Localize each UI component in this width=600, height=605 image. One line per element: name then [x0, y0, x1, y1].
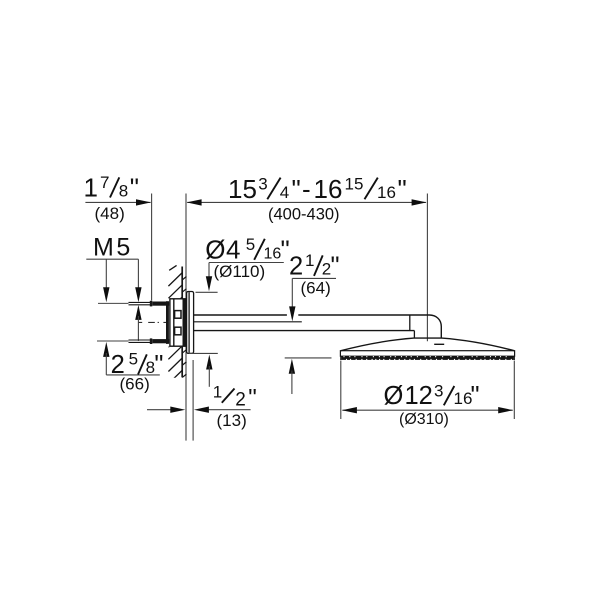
svg-text:8: 8	[119, 182, 128, 201]
svg-text:(48): (48)	[95, 204, 125, 223]
svg-text:(Ø110): (Ø110)	[214, 262, 266, 281]
svg-text:": "	[130, 173, 139, 203]
dimension flange diameter 4 5/16 inch (110)	[189, 235, 290, 387]
svg-text:Ø: Ø	[205, 235, 225, 265]
svg-text:M5: M5	[93, 234, 133, 262]
svg-text:16: 16	[264, 246, 282, 263]
svg-text:5: 5	[246, 235, 255, 254]
extension line union rear edge	[151, 194, 153, 301]
svg-text:12: 12	[405, 382, 433, 410]
svg-text:5: 5	[129, 350, 138, 369]
svg-text:3: 3	[258, 174, 267, 193]
svg-text:(400-430): (400-430)	[268, 206, 340, 224]
svg-text:(66): (66)	[120, 375, 150, 394]
shower head dome and spray plate	[340, 338, 514, 360]
svg-text:1: 1	[213, 383, 222, 402]
svg-text:15: 15	[228, 174, 257, 204]
svg-text:2: 2	[235, 390, 246, 411]
dimension 1 7/8 inch (48) wall to union rear	[84, 173, 152, 224]
svg-text:": "	[471, 382, 480, 410]
svg-text:": "	[292, 174, 301, 204]
dimension 1/2 inch (13) flange projection	[147, 360, 257, 441]
svg-text:1: 1	[305, 251, 314, 270]
wall flange escutcheon	[187, 292, 194, 354]
extension line head centre through elbow	[426, 194, 428, 342]
svg-text:(13): (13)	[217, 411, 247, 430]
svg-text:-: -	[302, 174, 311, 204]
svg-text:Ø: Ø	[384, 382, 404, 410]
svg-text:4: 4	[280, 183, 289, 202]
centre line dash-dot of arm axis	[139, 321, 193, 323]
svg-text:4: 4	[226, 235, 240, 265]
svg-text:2: 2	[289, 253, 303, 281]
svg-text:16: 16	[314, 174, 343, 204]
dimension 2 1/2 inch (64) arm axis to spray face	[285, 251, 340, 394]
svg-text:7: 7	[100, 173, 109, 192]
svg-text:16: 16	[377, 183, 396, 202]
wall surface line	[181, 267, 183, 378]
lower mounting screw M5	[97, 338, 169, 344]
svg-text:1: 1	[84, 173, 98, 203]
svg-text:": "	[154, 351, 163, 379]
svg-text:3: 3	[434, 381, 443, 400]
svg-text:": "	[331, 253, 340, 281]
svg-text:15: 15	[345, 174, 364, 193]
svg-text:(Ø310): (Ø310)	[399, 411, 449, 428]
svg-text:": "	[248, 385, 257, 412]
dimension 2 5/8 inch (66) screw spacing	[103, 305, 163, 394]
svg-text:(64): (64)	[301, 279, 331, 298]
concealed union body behind wall	[166, 299, 186, 346]
label M5 mounting screws	[86, 234, 141, 303]
dimension 15 3/4 - 16 15/16 inch (400-430) wall to head centre	[187, 174, 427, 224]
upper mounting screw M5	[98, 301, 169, 307]
dimension head diameter 12 3/16 inch (310)	[341, 361, 515, 428]
shower arm tube with elbow	[193, 315, 441, 338]
extension line wall face	[185, 194, 187, 441]
svg-text:": "	[398, 174, 407, 204]
